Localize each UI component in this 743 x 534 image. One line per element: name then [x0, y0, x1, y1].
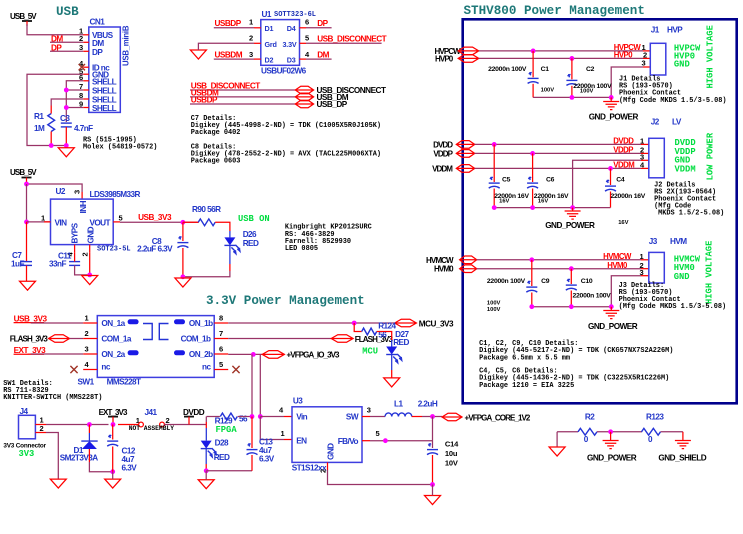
wire U3 FB/Vo to C14: [362, 440, 370, 442]
capacitor C10 symbol: [570, 269, 572, 284]
svg-text:2.2uH: 2.2uH: [418, 399, 438, 408]
svg-text:R90 56R: R90 56R: [192, 205, 221, 214]
svg-text:C1: C1: [541, 66, 550, 73]
wire CN1 pin7 shell: [66, 89, 83, 91]
svg-text:USBUF02W6: USBUF02W6: [261, 67, 307, 76]
wire USB_3V3 VOUT to C8/R90: [120, 221, 199, 223]
svg-text:LDS3985M33R: LDS3985M33R: [90, 190, 141, 199]
resistor R124 symbol: [362, 328, 377, 335]
wire J4 pin2 to ground: [46, 433, 58, 480]
junction rail C10: [569, 304, 574, 309]
svg-text:1: 1: [41, 214, 45, 223]
junction C2 top: [570, 56, 575, 61]
capacitor C14 symbol: [427, 449, 438, 451]
svg-text:VOUT: VOUT: [89, 218, 110, 227]
wire FLASH_3V3 to SW1 pin2: [70, 338, 84, 340]
junction C1 top: [531, 49, 536, 54]
wire D27 cathode to ground: [391, 355, 393, 371]
svg-text:COM_1b: COM_1b: [181, 335, 211, 344]
wire R2 to junction: [597, 431, 642, 433]
svg-text:SW: SW: [346, 413, 359, 422]
no-connect X on CN1 pin 4: [79, 64, 85, 70]
off-page connector USB_DISCONNECT: [295, 86, 313, 94]
junction Vin node A: [250, 414, 255, 419]
svg-text:5: 5: [376, 429, 380, 438]
off-page connector USB_DM: [295, 93, 313, 101]
svg-text:FB/Vo: FB/Vo: [338, 437, 359, 446]
svg-text:DVDD: DVDD: [613, 137, 634, 146]
svg-text:Vin: Vin: [296, 413, 307, 422]
off-page connector FLASH_3V3 right: [331, 335, 353, 343]
junction C3 bottom: [64, 143, 69, 148]
svg-text:(Mfg Code MKDS 1.5/3-5.08): (Mfg Code MKDS 1.5/3-5.08): [619, 97, 727, 105]
svg-text:D2: D2: [265, 56, 274, 65]
wire HVM0 to J3 pin2: [477, 268, 641, 270]
wire R124 to D27: [377, 332, 392, 341]
connector J1 body: [650, 43, 666, 75]
svg-text:1: 1: [281, 429, 285, 438]
svg-text:ON_1b: ON_1b: [189, 319, 213, 328]
svg-text:C2: C2: [586, 66, 595, 73]
led D27: [386, 347, 397, 355]
svg-text:LED 0805: LED 0805: [285, 245, 318, 253]
svg-text:1: 1: [85, 313, 89, 322]
svg-text:nc: nc: [202, 362, 211, 371]
ground below C14: [425, 496, 441, 505]
wire USBDM to U1 pin3: [214, 58, 254, 60]
svg-text:C5: C5: [502, 177, 511, 184]
svg-text:DP: DP: [317, 19, 328, 28]
svg-text:GND_SHIELD: GND_SHIELD: [658, 454, 706, 463]
capacitor C8 symbol: [182, 222, 184, 241]
off-page connector HVP0: [458, 55, 479, 63]
resistor R129 wire: [207, 416, 220, 418]
svg-text:16V: 16V: [538, 198, 548, 204]
svg-text:100V: 100V: [487, 307, 501, 313]
svg-text:22000n 16V: 22000n 16V: [611, 193, 646, 200]
wire HVMCW to J3 pin1: [477, 259, 641, 261]
capacitor C13 symbol: [251, 417, 253, 449]
capacitor C7 symbol: [26, 222, 28, 261]
svg-text:R124: R124: [378, 322, 396, 331]
wire U3 SW to L1: [362, 416, 370, 418]
svg-text:MCU: MCU: [362, 347, 378, 357]
junction Vin node B: [258, 414, 263, 419]
wire VDDP to J2 pin2: [475, 152, 641, 154]
wire chassis to R2: [557, 431, 578, 433]
svg-text:ON_2a: ON_2a: [101, 350, 125, 359]
svg-text:J3: J3: [649, 237, 658, 246]
wire SW1 pin7 FLASH_3V3: [228, 338, 331, 340]
svg-text:R123: R123: [646, 413, 664, 422]
svg-text:USB_DP: USB_DP: [317, 100, 348, 109]
junction rail GND (J2): [570, 205, 575, 210]
svg-text:USB_5V: USB_5V: [10, 168, 37, 177]
svg-text:GND: GND: [87, 226, 96, 243]
svg-text:STHV800 Power Management: STHV800 Power Management: [464, 4, 645, 18]
svg-text:C9: C9: [541, 278, 550, 285]
svg-text:7: 7: [219, 329, 223, 338]
svg-text:C3: C3: [60, 114, 70, 123]
svg-text:DP: DP: [92, 48, 103, 57]
junction rail GND: [609, 95, 614, 100]
svg-text:HVM0: HVM0: [607, 261, 628, 270]
wire parallel branch to EN: [259, 354, 261, 416]
junction C4 top: [608, 166, 613, 171]
capacitor C4 symbol: [610, 168, 612, 185]
wire CN1 pin9 shell: [66, 107, 83, 109]
J41 pad circles: [139, 422, 144, 427]
wire U3 GND rail: [328, 470, 433, 485]
ground at U1 pin2: [190, 50, 206, 59]
svg-text:6.3V: 6.3V: [122, 463, 138, 472]
wire USB_5V to CN1 pin1: [27, 24, 84, 35]
connector J2 body: [649, 138, 665, 178]
ground below C3: [58, 148, 74, 157]
svg-text:NOT ASSEMBLY: NOT ASSEMBLY: [129, 425, 175, 432]
svg-text:USB_5V: USB_5V: [10, 12, 37, 21]
svg-text:VDDP: VDDP: [613, 146, 633, 155]
junction C14 bottom: [430, 482, 435, 487]
ground below D28: [198, 480, 214, 489]
svg-text:DM: DM: [317, 50, 329, 59]
wire D28 cathode down: [205, 449, 207, 464]
svg-text:+VFPGA_CORE_1V2: +VFPGA_CORE_1V2: [465, 414, 531, 423]
svg-text:HVP0: HVP0: [435, 55, 454, 64]
ground GND_POWER (J2): [572, 208, 574, 211]
svg-text:SHELL: SHELL: [92, 86, 117, 95]
svg-text:56: 56: [239, 415, 248, 424]
wire USBDM to off-page: [190, 96, 295, 98]
svg-text:GND: GND: [674, 59, 690, 69]
junction rail GND (J3): [609, 304, 614, 309]
wire DVDD node to R129 and D28: [205, 417, 207, 423]
svg-text:16V: 16V: [618, 220, 628, 226]
svg-text:U3: U3: [293, 397, 303, 406]
svg-text:HVM: HVM: [670, 237, 687, 246]
svg-text:GND_POWER: GND_POWER: [588, 322, 638, 331]
svg-text:J4: J4: [20, 407, 29, 416]
svg-text:D3: D3: [287, 56, 296, 65]
resistor R129 symbol: [220, 413, 237, 420]
ground below J4 pin2: [50, 479, 66, 488]
svg-text:22000n 100V: 22000n 100V: [488, 66, 527, 73]
svg-text:RED: RED: [243, 239, 259, 248]
capacitor C1 symbol: [532, 51, 534, 77]
svg-text:2: 2: [40, 424, 44, 433]
svg-text:4.7nF: 4.7nF: [74, 124, 93, 133]
U3 GND pin stub: [327, 462, 329, 470]
svg-text:5: 5: [119, 214, 123, 223]
svg-text:BYPS: BYPS: [71, 222, 80, 243]
svg-text:D1: D1: [265, 24, 274, 33]
junction R1 bottom: [49, 143, 54, 148]
no-connect X on SW1 pin5: [232, 366, 239, 373]
svg-text:GND: GND: [674, 272, 690, 282]
svg-text:3: 3: [642, 59, 646, 68]
inductor L1 symbol: [385, 413, 412, 417]
svg-text:LOW POWER: LOW POWER: [706, 132, 716, 180]
capacitor C2 symbol: [571, 58, 573, 79]
wire ground to U1 pin2: [198, 43, 254, 50]
svg-text:ON_2b: ON_2b: [189, 350, 213, 359]
svg-text:J2: J2: [651, 118, 660, 127]
svg-text:GND_POWER: GND_POWER: [587, 454, 637, 463]
svg-text:D28: D28: [215, 438, 229, 447]
wire R123 to GND_SHIELD: [661, 431, 683, 433]
svg-text:RED: RED: [214, 453, 230, 462]
capacitor C11 symbol: [69, 261, 80, 263]
svg-text:3: 3: [79, 43, 83, 52]
SW1 contact brackets: [143, 324, 169, 340]
wire C11 to GND pin: [75, 266, 90, 275]
svg-text:VDDM: VDDM: [432, 164, 453, 173]
svg-text:C4: C4: [616, 177, 625, 184]
svg-text:Molex (54819-0572): Molex (54819-0572): [83, 144, 157, 152]
junction C6 top: [530, 151, 535, 156]
junction rail C5: [492, 205, 497, 210]
wire USB_5V to INH and VIN: [27, 184, 83, 192]
svg-text:(Mfg Code MKDS 1.5/3-5.08): (Mfg Code MKDS 1.5/3-5.08): [619, 303, 727, 311]
svg-text:HIGH VOLTAGE: HIGH VOLTAGE: [705, 241, 715, 304]
off-page connector FLASH_3V3 left: [49, 335, 70, 343]
svg-text:100V: 100V: [541, 87, 555, 93]
svg-text:VDDM: VDDM: [613, 161, 634, 170]
off-page connector +VFPGA_CORE_1V2: [442, 413, 462, 421]
resistor R1 symbol: [48, 114, 55, 132]
svg-text:USB_3V3: USB_3V3: [138, 213, 172, 222]
ground below D27: [384, 378, 400, 387]
svg-text:3: 3: [85, 344, 89, 353]
wire J1 pin3 GND: [643, 66, 650, 68]
ground below C12: [105, 479, 121, 488]
off-page connector VDDM: [456, 165, 474, 173]
svg-text:DVDD: DVDD: [183, 408, 205, 417]
wire EN branch: [260, 417, 284, 440]
ground GND_POWER (bottom): [610, 432, 612, 441]
wire J2 pin3 GND: [641, 159, 649, 161]
wire VDDM to J2 pin4: [475, 167, 641, 169]
svg-text:22000n 100V: 22000n 100V: [573, 293, 612, 300]
junction D1 top: [87, 422, 92, 427]
svg-text:EXT_3V3: EXT_3V3: [99, 408, 128, 417]
svg-text:Package 6.5mm x 5.5 mm: Package 6.5mm x 5.5 mm: [479, 354, 570, 362]
resistor R2 symbol: [578, 428, 597, 435]
svg-text:3.3V Power Management: 3.3V Power Management: [206, 294, 365, 308]
wire USB_DISCONNECT to off-page: [190, 89, 295, 91]
svg-text:SOT23-5L: SOT23-5L: [97, 246, 131, 254]
svg-text:FLASH_3V3: FLASH_3V3: [355, 335, 394, 344]
wire J3 ground rail: [532, 306, 612, 308]
junction rail C9: [529, 304, 534, 309]
connector J3 body: [649, 252, 665, 283]
junction pin9: [64, 105, 69, 110]
svg-text:GND: GND: [327, 443, 336, 460]
svg-text:HVM0: HVM0: [434, 265, 454, 274]
wire USBDP to off-page: [190, 103, 295, 105]
wire CN1 pin6 shell to C3 column: [66, 81, 83, 122]
svg-text:3V3: 3V3: [19, 449, 35, 459]
junction C5 top: [492, 142, 497, 147]
svg-text:2: 2: [249, 34, 253, 43]
off-page connector HVMCW: [460, 256, 477, 264]
svg-text:USB_3V3: USB_3V3: [14, 314, 48, 323]
svg-text:1M: 1M: [34, 124, 45, 133]
svg-text:6: 6: [305, 18, 309, 27]
svg-text:100V: 100V: [487, 301, 501, 307]
svg-text:J1: J1: [651, 26, 660, 35]
J4 pin stubs: [35, 424, 46, 426]
svg-text:Package 0402: Package 0402: [191, 129, 241, 137]
junction +VFPGA_IO_3V3: [251, 352, 256, 357]
ground below U2 GND: [82, 276, 98, 285]
wire J2 ground rail: [494, 207, 610, 209]
junction USB_5V tap: [24, 182, 29, 187]
svg-text:10V: 10V: [445, 458, 458, 467]
svg-text:USBDP: USBDP: [191, 95, 218, 104]
svg-text:5: 5: [305, 34, 309, 43]
svg-text:4: 4: [279, 406, 284, 415]
junction U2 GND: [87, 273, 92, 278]
wire SW1 pin8 MCU_3V3: [228, 322, 395, 324]
svg-text:3: 3: [367, 406, 371, 415]
svg-text:6.3V: 6.3V: [259, 455, 275, 464]
svg-text:D4: D4: [287, 24, 296, 33]
svg-text:3: 3: [249, 50, 253, 59]
svg-text:GND_POWER: GND_POWER: [589, 112, 639, 121]
ground GND_POWER (J1): [610, 97, 612, 101]
wire HVPCW to J1 pin1: [479, 50, 643, 52]
resistor R124 branch wire: [354, 323, 362, 332]
svg-text:1: 1: [249, 18, 253, 27]
svg-text:HIGH VOLTAGE: HIGH VOLTAGE: [706, 25, 716, 88]
ic U1 body: [261, 20, 300, 66]
junction GND_POWER node: [608, 429, 613, 434]
svg-text:FLASH_3V3: FLASH_3V3: [10, 335, 49, 344]
border STHV800 section: [463, 19, 737, 403]
svg-text:SHELL: SHELL: [92, 104, 117, 113]
svg-text:FPGA: FPGA: [216, 425, 238, 435]
svg-text:LV: LV: [672, 118, 682, 127]
junction C9 top: [529, 257, 534, 262]
wire net DM to CN1 pin2: [50, 41, 83, 43]
svg-text:Grd: Grd: [265, 40, 277, 49]
svg-text:+VFPGA_IO_3V3: +VFPGA_IO_3V3: [287, 351, 341, 360]
svg-text:INH: INH: [79, 200, 88, 213]
svg-text:16V: 16V: [499, 198, 509, 204]
junction pin7: [64, 88, 69, 93]
wire DVDD to J2 pin1: [475, 143, 641, 145]
svg-text:EN: EN: [296, 436, 307, 445]
svg-text:J41: J41: [145, 408, 158, 417]
ground GND_POWER (J3): [610, 307, 612, 311]
svg-text:USB ON: USB ON: [238, 214, 270, 224]
svg-text:1: 1: [640, 137, 644, 146]
svg-text:RED: RED: [393, 338, 409, 347]
svg-text:COM_1a: COM_1a: [101, 335, 131, 344]
junction C8 top: [181, 220, 186, 225]
junction rail C6: [530, 205, 535, 210]
svg-text:Package 0603: Package 0603: [191, 158, 241, 166]
svg-text:SOTT323-6L: SOTT323-6L: [274, 11, 316, 19]
svg-text:USB_miniB: USB_miniB: [122, 25, 131, 66]
ic U3 body: [292, 407, 362, 463]
junction VIN branch: [24, 220, 29, 225]
svg-text:1uF: 1uF: [11, 260, 24, 269]
svg-text:22000n 100V: 22000n 100V: [487, 278, 526, 285]
junction D28 ground node: [204, 468, 209, 473]
svg-text:HVMCW: HVMCW: [426, 256, 454, 265]
svg-text:2.2uF 6.3V: 2.2uF 6.3V: [137, 244, 173, 253]
wire U1 pin4 DM: [306, 58, 332, 60]
svg-text:L1: L1: [394, 399, 403, 408]
svg-text:U1: U1: [262, 10, 272, 19]
off-page connector USB_DP: [295, 100, 313, 108]
svg-text:C14: C14: [445, 439, 459, 448]
svg-text:0: 0: [584, 435, 589, 444]
capacitor C6 symbol: [532, 153, 534, 182]
svg-text:6: 6: [219, 344, 223, 353]
wire J3 pin3 GND: [641, 275, 649, 277]
CN1 pin stubs: [83, 34, 89, 36]
svg-text:10u: 10u: [445, 449, 458, 458]
svg-text:100V: 100V: [580, 88, 594, 94]
svg-text:MMS228T: MMS228T: [107, 378, 141, 387]
SW1 pin stubs left: [83, 322, 97, 324]
resistor R90 symbol: [183, 221, 199, 223]
svg-text:CN1: CN1: [90, 18, 106, 27]
svg-text:33nF: 33nF: [49, 260, 66, 269]
svg-text:nc: nc: [101, 362, 110, 371]
svg-text:MCU_3V3: MCU_3V3: [419, 320, 454, 329]
wire L1 to +VFPGA_CORE_1V2: [412, 416, 422, 418]
ground below C8: [175, 278, 191, 287]
svg-text:SW1: SW1: [78, 378, 95, 387]
wire HVP0 to J1 pin2: [479, 57, 643, 59]
svg-text:MKDS 1.5/2-5.08): MKDS 1.5/2-5.08): [658, 210, 724, 218]
svg-text:4: 4: [305, 50, 310, 59]
capacitor C12 symbol: [112, 425, 114, 440]
junction C12 bottom: [110, 469, 115, 474]
svg-text:SHELL: SHELL: [92, 77, 117, 86]
off-page connector HVPCW: [458, 47, 479, 55]
U1 pin stubs: [254, 27, 261, 29]
junction EXT_3V3 tap: [111, 422, 116, 427]
capacitor C3 symbol: [61, 122, 72, 124]
svg-text:USB: USB: [56, 5, 79, 19]
SW1 pin stubs right: [214, 322, 228, 324]
wire J1 ground rail: [533, 96, 611, 98]
svg-text:D26: D26: [243, 230, 257, 239]
junction rail C2: [570, 95, 575, 100]
diode D1 symbol: [88, 425, 90, 434]
svg-text:U2: U2: [56, 187, 66, 196]
ground GND_SHIELD: [682, 432, 684, 441]
svg-text:C6: C6: [546, 177, 555, 184]
svg-text:GND_POWER: GND_POWER: [545, 221, 595, 230]
svg-text:R1: R1: [34, 112, 44, 121]
switch SW1 body: [97, 316, 214, 378]
svg-text:2: 2: [81, 253, 90, 257]
svg-text:DM: DM: [92, 39, 104, 48]
svg-text:2: 2: [319, 469, 328, 473]
off-page connector VDDP: [456, 150, 474, 158]
svg-text:4: 4: [85, 360, 90, 369]
wire EXT_3V3 to SW1 pin3: [31, 353, 83, 355]
svg-text:1: 1: [640, 252, 644, 261]
svg-text:VDDP: VDDP: [433, 149, 453, 158]
svg-text:HVMCW: HVMCW: [603, 252, 632, 261]
